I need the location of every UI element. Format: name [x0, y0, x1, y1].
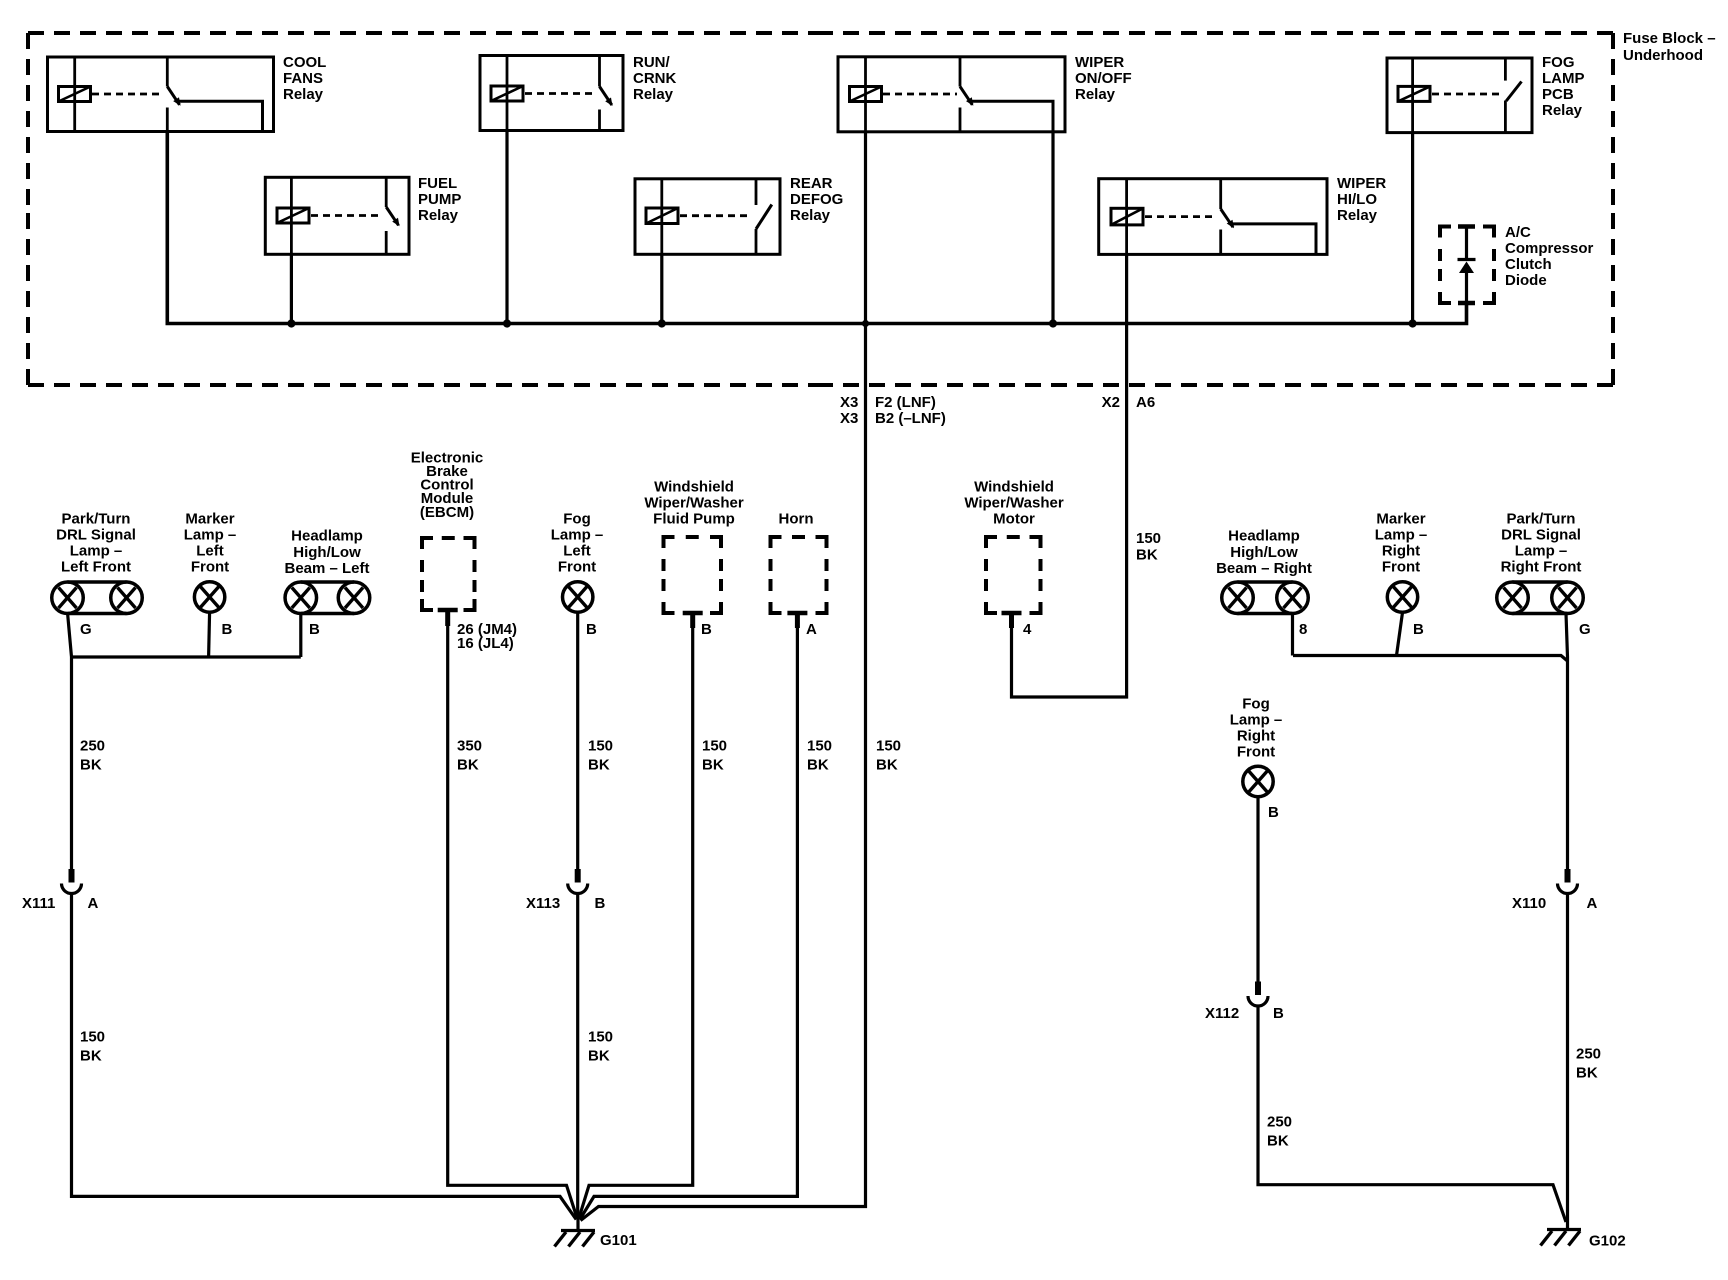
label A/C Compressor Clutch Diode [1505, 224, 1594, 289]
pin G park/turn left [80, 621, 92, 638]
svg-text:Relay: Relay [1542, 102, 1583, 119]
wire 150 BK below X113 to G101 [576, 894, 579, 1219]
wire horn 150 BK to G101 [580, 613, 798, 1220]
wire X3 150 BK from WIPER ON/OFF coil down to G101 [581, 132, 866, 1221]
svg-text:250: 250 [80, 738, 105, 755]
svg-text:B: B [586, 621, 597, 638]
svg-text:Relay: Relay [1075, 86, 1116, 103]
pin A horn [806, 621, 817, 638]
lamp Marker Lamp - Left Front [194, 582, 224, 612]
lamp Park/Turn DRL Signal Lamp - Right Front [1497, 582, 1584, 614]
WIPER HI/LO relay switch [1219, 179, 1222, 209]
svg-text:Lamp –: Lamp – [1375, 527, 1428, 544]
wire EBCM 350 BK to G101 [448, 613, 578, 1219]
pin G park/turn right [1579, 621, 1591, 638]
COOL FANS relay coil [59, 87, 91, 102]
svg-text:Left: Left [196, 543, 224, 560]
wire WIPER ON/OFF switch out to bus [1051, 132, 1054, 324]
lamp Headlamp High/Low Beam - Right [1222, 582, 1309, 614]
pin B fog right [1268, 804, 1279, 821]
label RUN/CRNK [633, 54, 676, 103]
svg-text:BK: BK [80, 757, 102, 774]
pin 8 headlamp right [1299, 621, 1307, 638]
svg-text:BK: BK [876, 757, 898, 774]
svg-text:PCB: PCB [1542, 86, 1574, 103]
svg-text:X3: X3 [840, 394, 858, 411]
wire fluid pump 150 BK to G101 [579, 613, 693, 1219]
svg-text:Front: Front [1382, 559, 1420, 576]
relay COOL FANS [48, 57, 274, 132]
svg-text:X2: X2 [1102, 394, 1120, 411]
svg-text:Marker: Marker [1376, 511, 1425, 528]
relay FUEL PUMP [265, 177, 409, 254]
windshield wiper/washer motor dashed box [986, 537, 1041, 613]
svg-text:Right Front: Right Front [1501, 559, 1582, 576]
svg-text:8: 8 [1299, 621, 1307, 638]
svg-text:150: 150 [588, 738, 613, 755]
svg-text:Relay: Relay [790, 207, 831, 224]
svg-text:Right: Right [1237, 728, 1275, 745]
svg-text:High/Low: High/Low [1230, 544, 1298, 561]
svg-text:Relay: Relay [418, 207, 459, 224]
wire FUEL PUMP coil to bus [290, 254, 293, 323]
svg-text:X110: X110 [1512, 895, 1546, 912]
lamp Marker Lamp - Right Front [1387, 582, 1417, 612]
pin stub horn [795, 613, 800, 628]
svg-text:G101: G101 [600, 1232, 637, 1249]
FOG LAMP PCB relay coil [1398, 86, 1430, 101]
svg-text:FOG: FOG [1542, 54, 1575, 71]
svg-text:F2 (LNF): F2 (LNF) [875, 394, 936, 411]
pin B fog left [586, 621, 597, 638]
svg-text:COOL: COOL [283, 54, 326, 71]
wire park/turn left pin G down [68, 613, 72, 870]
wire 150 BK below X111 to G101 [72, 894, 577, 1220]
RUN/CRNK relay coil [491, 86, 523, 101]
svg-text:A: A [1587, 895, 1598, 912]
pin stub wiper motor [1009, 613, 1014, 628]
svg-text:250: 250 [1267, 1114, 1292, 1131]
pin 4 wiper motor [1023, 621, 1032, 638]
label FUEL PUMP [418, 175, 461, 224]
svg-text:Left Front: Left Front [61, 559, 131, 576]
svg-text:Fog: Fog [563, 511, 591, 528]
pin B headlamp left [309, 621, 320, 638]
svg-text:G: G [80, 621, 92, 638]
label FOG LAMP PCB [1542, 54, 1585, 119]
svg-text:RUN/: RUN/ [633, 54, 670, 71]
node X3 F2/B2 labels [840, 394, 946, 427]
svg-text:Front: Front [558, 559, 596, 576]
connector X110 [1565, 869, 1571, 883]
connector X113 [575, 869, 581, 883]
svg-text:150: 150 [702, 738, 727, 755]
ground G101 [555, 1218, 596, 1247]
svg-text:Lamp –: Lamp – [551, 527, 604, 544]
svg-text:Wiper/Washer: Wiper/Washer [644, 495, 743, 512]
svg-text:X113: X113 [526, 895, 560, 912]
svg-text:BK: BK [1267, 1133, 1289, 1150]
svg-text:150: 150 [80, 1029, 105, 1046]
svg-text:LAMP: LAMP [1542, 70, 1585, 87]
svg-text:Fog: Fog [1242, 696, 1270, 713]
svg-text:High/Low: High/Low [293, 544, 361, 561]
svg-text:Front: Front [1237, 744, 1275, 761]
pin B marker left [222, 621, 233, 638]
svg-text:Park/Turn: Park/Turn [62, 511, 131, 528]
svg-text:DRL Signal: DRL Signal [56, 527, 136, 544]
svg-text:Underhood: Underhood [1623, 47, 1703, 64]
node G101 label [600, 1232, 637, 1249]
junction dots on bus [287, 319, 1416, 327]
svg-text:B: B [1413, 621, 1424, 638]
svg-text:Marker: Marker [185, 511, 234, 528]
svg-text:4: 4 [1023, 621, 1032, 638]
svg-text:X3: X3 [840, 410, 858, 427]
svg-text:Front: Front [191, 559, 229, 576]
label WIPER ON/OFF [1075, 54, 1132, 103]
svg-text:150: 150 [588, 1029, 613, 1046]
windshield wiper/washer fluid pump dashed box [664, 537, 722, 613]
svg-text:Relay: Relay [633, 86, 674, 103]
FUEL PUMP relay coil [277, 208, 309, 223]
pin B marker right [1413, 621, 1424, 638]
svg-text:150: 150 [1136, 530, 1161, 547]
wire marker left pin B [209, 612, 210, 658]
svg-text:250: 250 [1576, 1046, 1601, 1063]
svg-text:Compressor: Compressor [1505, 240, 1594, 257]
WIPER ON/OFF relay coil [850, 87, 882, 102]
svg-text:Wiper/Washer: Wiper/Washer [964, 495, 1063, 512]
pin stub EBCM [445, 610, 450, 626]
REAR DEFOG relay coil [646, 208, 678, 224]
pin B fluid pump [701, 621, 712, 638]
svg-text:Left: Left [563, 543, 591, 560]
svg-text:BK: BK [588, 757, 610, 774]
electronic brake control module EBCM dashed box [422, 538, 475, 610]
lamp Fog Lamp - Right Front [1243, 766, 1273, 796]
wire lamp bus left [70, 655, 301, 658]
FUEL PUMP relay switch [385, 177, 388, 207]
svg-text:150: 150 [876, 738, 901, 755]
svg-text:B: B [701, 621, 712, 638]
fuse block underhood dashed boundary [28, 33, 1613, 385]
svg-text:HI/LO: HI/LO [1337, 191, 1377, 208]
svg-text:Lamp –: Lamp – [1230, 712, 1283, 729]
svg-text:B2 (–LNF): B2 (–LNF) [875, 410, 946, 427]
wire park/turn right pin G down (250 BK) [1566, 614, 1568, 870]
label 150 BK (X3 wire) [876, 738, 901, 774]
svg-text:G: G [1579, 621, 1591, 638]
connector X112 [1255, 982, 1261, 996]
wire 250 BK below X112 to G102 [1258, 1007, 1566, 1223]
svg-text:WIPER: WIPER [1075, 54, 1124, 71]
svg-text:A/C: A/C [1505, 224, 1531, 241]
svg-text:A: A [806, 621, 817, 638]
svg-text:Lamp –: Lamp – [70, 543, 123, 560]
WIPER ON/OFF relay switch [959, 57, 962, 87]
svg-text:BK: BK [588, 1048, 610, 1065]
svg-text:B: B [222, 621, 233, 638]
FOG LAMP PCB relay switch [1504, 58, 1507, 81]
RUN/CRNK relay switch [598, 56, 601, 87]
label COOL FANS [283, 54, 326, 103]
svg-text:B: B [309, 621, 320, 638]
wire fog lamp left 150 BK down to X113 [576, 613, 579, 869]
svg-text:Headlamp: Headlamp [1228, 528, 1300, 545]
lamp Fog Lamp - Left Front [563, 582, 593, 612]
svg-text:Lamp –: Lamp – [1515, 543, 1568, 560]
COOL FANS relay switch [166, 57, 169, 87]
horn dashed box [771, 537, 827, 613]
svg-text:Relay: Relay [283, 86, 324, 103]
svg-text:DEFOG: DEFOG [790, 191, 843, 208]
svg-text:Beam – Right: Beam – Right [1216, 560, 1312, 577]
REAR DEFOG relay switch [755, 179, 758, 205]
lamp Headlamp High/Low Beam - Left [285, 582, 370, 614]
svg-text:(EBCM): (EBCM) [420, 504, 474, 521]
svg-text:Horn: Horn [779, 511, 814, 528]
wire FOG LAMP coil to bus [1411, 133, 1414, 324]
lamp Park/Turn DRL Signal Lamp - Left Front [52, 582, 143, 614]
label 150 BK (X2 wire) [1136, 530, 1161, 564]
wire headlamp left pin B [299, 614, 302, 658]
svg-text:REAR: REAR [790, 175, 833, 192]
svg-text:Windshield: Windshield [974, 479, 1054, 496]
svg-text:Headlamp: Headlamp [291, 528, 363, 545]
wire X2 150 BK from WIPER HI/LO coil down to wiper motor [1012, 254, 1127, 697]
wire fog right 250 BK down to X112 [1256, 797, 1259, 982]
A/C compressor clutch diode dashed box [1440, 227, 1494, 304]
svg-text:A: A [88, 895, 99, 912]
svg-text:BK: BK [807, 757, 829, 774]
svg-text:BK: BK [457, 757, 479, 774]
svg-text:WIPER: WIPER [1337, 175, 1386, 192]
wire headlamp right pin 8 down [1291, 614, 1294, 656]
label REAR DEFOG [790, 175, 843, 224]
wire 250 BK below X110 to G102 [1566, 894, 1569, 1229]
svg-text:B: B [1268, 804, 1279, 821]
svg-text:Windshield: Windshield [654, 479, 734, 496]
ground G102 [1541, 1230, 1582, 1246]
svg-text:Relay: Relay [1337, 207, 1378, 224]
label 250 BK left [80, 738, 105, 774]
connector X111 [69, 869, 75, 883]
svg-text:BK: BK [1576, 1065, 1598, 1082]
relay REAR DEFOG [635, 179, 780, 255]
pin stub fluid pump [690, 613, 695, 628]
svg-text:350: 350 [457, 738, 482, 755]
svg-text:CRNK: CRNK [633, 70, 676, 87]
relay RUN/CRNK [480, 56, 623, 131]
svg-text:FUEL: FUEL [418, 175, 457, 192]
svg-text:BK: BK [702, 757, 724, 774]
svg-text:16 (JL4): 16 (JL4) [457, 635, 514, 652]
relay WIPER ON/OFF [838, 57, 1065, 132]
svg-text:A6: A6 [1136, 394, 1155, 411]
svg-text:Right: Right [1382, 543, 1420, 560]
WIPER HI/LO relay coil [1111, 208, 1143, 225]
svg-text:Motor: Motor [993, 511, 1035, 528]
wire REAR DEFOG coil to bus [660, 254, 663, 323]
svg-text:Clutch: Clutch [1505, 256, 1552, 273]
svg-text:ON/OFF: ON/OFF [1075, 70, 1132, 87]
svg-text:PUMP: PUMP [418, 191, 461, 208]
svg-text:BK: BK [1136, 547, 1158, 564]
wire marker right pin B [1397, 613, 1403, 656]
svg-text:Beam – Left: Beam – Left [284, 560, 369, 577]
label WIPER HI/LO [1337, 175, 1386, 224]
svg-text:Fluid Pump: Fluid Pump [653, 511, 735, 528]
svg-text:Park/Turn: Park/Turn [1507, 511, 1576, 528]
relay FOG LAMP PCB [1387, 58, 1532, 133]
svg-text:DRL Signal: DRL Signal [1501, 527, 1581, 544]
svg-text:X111: X111 [22, 895, 55, 912]
svg-text:G102: G102 [1589, 1233, 1626, 1250]
svg-text:Diode: Diode [1505, 272, 1547, 289]
label Fuse Block - Underhood [1623, 30, 1716, 64]
wire RUN/CRNK coil to bus [505, 131, 508, 324]
node G102 label [1589, 1233, 1626, 1250]
svg-text:X112: X112 [1205, 1005, 1239, 1022]
relay WIPER HI/LO [1099, 179, 1327, 255]
node X2 A6 labels [1102, 394, 1156, 411]
wire lamp bus right [1293, 656, 1568, 662]
svg-text:FANS: FANS [283, 70, 323, 87]
svg-text:Lamp –: Lamp – [184, 527, 237, 544]
svg-text:150: 150 [807, 738, 832, 755]
wire ground bus in fuse block [167, 132, 1466, 324]
svg-text:B: B [1273, 1005, 1284, 1022]
diode symbol [1458, 228, 1476, 303]
pin 26 (JM4) / 16 (JL4) [457, 621, 517, 652]
svg-text:BK: BK [80, 1048, 102, 1065]
svg-text:Fuse Block –: Fuse Block – [1623, 30, 1716, 47]
svg-text:B: B [595, 895, 606, 912]
